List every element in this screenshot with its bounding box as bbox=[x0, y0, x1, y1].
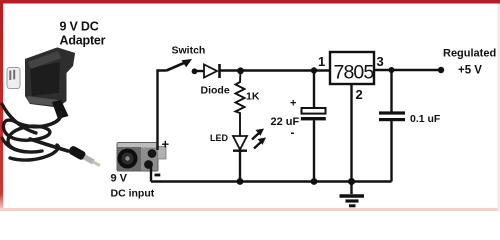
DC input jack photo bbox=[117, 143, 166, 172]
svg-text:2: 2 bbox=[356, 87, 363, 102]
svg-text:Regulated: Regulated bbox=[443, 48, 496, 60]
wire: + lead up from jack bbox=[158, 71, 167, 151]
svg-text:7805: 7805 bbox=[334, 61, 375, 83]
wire: - lead from jack bbox=[150, 162, 152, 182]
svg-text:9 V: 9 V bbox=[111, 173, 128, 185]
ground node bbox=[348, 178, 355, 185]
strain relief bbox=[52, 100, 69, 119]
pin 2 wire bbox=[350, 84, 352, 182]
wire to diode bbox=[196, 70, 204, 72]
svg-text:1: 1 bbox=[318, 54, 325, 69]
ground symbol bbox=[350, 182, 352, 195]
bottom rail bbox=[151, 180, 392, 182]
svg-text:+: + bbox=[290, 98, 296, 110]
svg-text:+: + bbox=[162, 137, 170, 152]
svg-text:9 V DC: 9 V DC bbox=[60, 19, 99, 33]
svg-text:Switch: Switch bbox=[172, 45, 206, 57]
- label at jack bbox=[155, 174, 161, 177]
svg-text:0.1 uF: 0.1 uF bbox=[410, 113, 441, 125]
LED arrows bbox=[252, 133, 260, 140]
diode D1 bbox=[204, 64, 220, 78]
node: resistor tap bbox=[237, 67, 244, 74]
svg-text:Diode: Diode bbox=[201, 85, 230, 97]
capacitor C2 0.1uF bbox=[390, 70, 392, 112]
cord from strain relief bbox=[14, 112, 61, 127]
pin 3 wire bbox=[374, 69, 441, 71]
label panel bbox=[30, 62, 60, 96]
wire: top rail to 7805 bbox=[220, 69, 331, 71]
svg-text:22 uF: 22 uF bbox=[271, 116, 300, 128]
barrel plug bbox=[68, 145, 103, 170]
regulator U1 7805 bbox=[330, 52, 374, 84]
resistor R1 1K bbox=[236, 71, 245, 136]
wall plug bbox=[7, 68, 20, 89]
node: LED to rail bbox=[237, 178, 244, 185]
svg-text:-: - bbox=[291, 126, 295, 140]
9V adapter (photo) bbox=[2, 48, 102, 170]
adapter top band bbox=[25, 48, 60, 62]
switch contact dot bbox=[192, 68, 198, 74]
switch lever bbox=[167, 63, 186, 71]
node: 0.1uF tap bbox=[389, 67, 395, 73]
svg-text:1K: 1K bbox=[246, 91, 260, 103]
svg-text:+5 V: +5 V bbox=[458, 65, 482, 77]
node: 22uF tap bbox=[311, 67, 317, 73]
cord tangle bbox=[3, 120, 49, 152]
sheen bbox=[27, 96, 58, 106]
output terminal bbox=[438, 67, 444, 73]
LED D2 bbox=[233, 136, 247, 150]
adapter rear block bbox=[58, 48, 76, 66]
svg-text:LED: LED bbox=[210, 133, 229, 143]
svg-text:Adapter: Adapter bbox=[60, 34, 106, 48]
capacitor C1 22uF bbox=[313, 71, 315, 109]
svg-text:3: 3 bbox=[377, 54, 384, 69]
svg-text:DC input: DC input bbox=[111, 188, 155, 200]
adapter front face bbox=[25, 48, 75, 108]
